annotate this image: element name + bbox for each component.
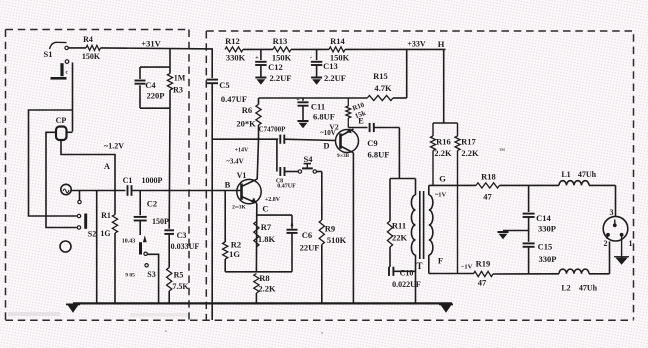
svg-text:V1: V1: [237, 171, 247, 180]
node H: [438, 39, 445, 49]
svg-text:150P: 150P: [152, 217, 169, 226]
V2 part number: [337, 154, 350, 159]
svg-text:G: G: [439, 174, 446, 184]
svg-text:C14: C14: [536, 213, 551, 223]
capacitor C2 150P: [134, 191, 169, 236]
svg-text:2.2K: 2.2K: [258, 284, 276, 294]
svg-text:·: ·: [310, 54, 312, 62]
svg-text:R19: R19: [476, 259, 491, 269]
wire C9 to transformer: [390, 128, 416, 179]
svg-text:C3: C3: [177, 231, 187, 240]
svg-text:10.43: 10.43: [122, 239, 136, 245]
wire C7 row: [212, 138, 278, 140]
svg-text:+33V: +33V: [407, 40, 426, 49]
svg-text:C15: C15: [538, 242, 553, 252]
svg-text:R13: R13: [273, 36, 288, 46]
svg-text:3: 3: [610, 208, 614, 217]
label ~3.4V: [226, 158, 243, 166]
svg-text:7.5K: 7.5K: [172, 282, 189, 291]
ground under C11: [298, 121, 309, 128]
wire C7row to C8: [276, 139, 278, 171]
resistor R3 1M: [167, 67, 185, 108]
connector pin 3: [610, 208, 617, 227]
wire mic to C1 row: [71, 190, 125, 192]
svg-text:S2: S2: [88, 230, 96, 239]
C6 top bar: [256, 214, 292, 216]
label +33V: [407, 40, 426, 49]
switch S4: [298, 154, 316, 173]
wire row y98: [259, 97, 368, 99]
svg-text:A: A: [104, 161, 111, 171]
svg-text:~3.4V: ~3.4V: [226, 158, 243, 166]
ground symbol right: [439, 304, 453, 312]
svg-text:C1: C1: [123, 176, 133, 185]
resistor R9 510K: [319, 220, 346, 303]
svg-text:~1V: ~1V: [435, 192, 447, 199]
node F: [438, 256, 443, 266]
ground under C13: [311, 78, 322, 85]
resistor R4 150K: [68, 35, 213, 61]
label -1V: [461, 264, 473, 271]
svg-text:R15: R15: [373, 71, 388, 81]
svg-text:T: T: [416, 261, 422, 271]
trademark mark: [499, 149, 505, 155]
svg-text:2∞3K: 2∞3K: [232, 205, 246, 211]
transistor V1: [237, 171, 262, 204]
svg-text:R8: R8: [259, 273, 269, 283]
wire ground branch x97: [96, 191, 98, 304]
label E node: [358, 116, 364, 126]
switch S1: [44, 42, 69, 59]
svg-text:C2: C2: [147, 199, 157, 209]
trimmer switch S3: [141, 235, 156, 279]
svg-text:22UF: 22UF: [300, 243, 320, 253]
svg-text:330P: 330P: [539, 254, 557, 264]
wire L1 to connector pin3: [615, 185, 617, 216]
wire F bar: [429, 273, 474, 275]
capacitor C5 0.47UF: [206, 49, 247, 320]
svg-text:+: +: [255, 56, 259, 62]
wire CP left lead to S2 contact 3: [46, 132, 77, 227]
svg-text:1G: 1G: [100, 229, 110, 238]
microphone M1: [61, 184, 71, 194]
svg-text:+: +: [296, 97, 300, 103]
wire H down: [443, 49, 445, 123]
circle symbol (battery holder): [60, 241, 71, 252]
capacitor C6 22UF: [287, 215, 320, 272]
svg-text:1M: 1M: [174, 74, 186, 83]
label B node: [225, 180, 231, 190]
svg-text:S3: S3: [147, 270, 155, 279]
svg-text:1000P: 1000P: [142, 176, 163, 185]
svg-text:0.47UF: 0.47UF: [277, 184, 296, 190]
svg-text:2.2K: 2.2K: [461, 148, 479, 158]
svg-text:R14: R14: [330, 36, 345, 46]
svg-text:S1: S1: [44, 49, 53, 59]
resistor R18 47: [476, 172, 559, 202]
wire R3 down to C3: [168, 108, 171, 229]
svg-text:9∞3B: 9∞3B: [337, 154, 350, 159]
svg-text:R7: R7: [261, 222, 272, 232]
svg-text:R5: R5: [174, 271, 184, 280]
capacitor C15 330P: [523, 242, 557, 274]
svg-text:4.7K: 4.7K: [374, 83, 392, 93]
node A label: [104, 161, 111, 171]
svg-text:330K: 330K: [226, 53, 246, 63]
svg-text:R18: R18: [481, 172, 496, 182]
ground under connector: [614, 257, 629, 265]
inductor L2 47Uh: [559, 269, 610, 292]
resistor R8 2.2K: [254, 273, 276, 303]
svg-text:C13: C13: [323, 61, 338, 71]
R16/R17 top bar: [433, 122, 458, 124]
node G: [435, 174, 447, 199]
wire branch to S2 contact 2: [29, 110, 77, 216]
wire B row to V1 base: [212, 190, 241, 192]
wire S3 wiper to ground bus: [147, 254, 158, 303]
transformer T primary: [411, 179, 415, 304]
label ~1.2V: [104, 142, 124, 151]
transformer core: [420, 191, 424, 259]
svg-text:1G: 1G: [229, 249, 240, 259]
wire S4 to R9: [316, 172, 321, 221]
resistor R6 20*K: [236, 98, 261, 139]
capacitor C8 0.47UF: [276, 167, 298, 190]
wire +31V drop to R3: [169, 49, 171, 68]
wire CP right lead: [67, 131, 73, 133]
capacitor C13 2.2UF: [310, 49, 346, 83]
wire pin1 to ground: [621, 236, 623, 258]
capacitor C7 4700P: [259, 126, 336, 144]
capacitor C4 220P: [135, 67, 165, 108]
resistor R10 15k: [346, 98, 367, 122]
resistor R13 150K: [272, 36, 329, 63]
svg-text:47: 47: [478, 278, 487, 288]
V1 part number: [232, 205, 246, 211]
inductor L1 47Uh: [559, 170, 616, 185]
wire CP bottom to node A line: [61, 140, 115, 191]
capacitor C9 6.8UF: [367, 123, 399, 160]
svg-text:L1: L1: [561, 170, 570, 179]
switch S2: [77, 214, 96, 239]
svg-text:R4: R4: [83, 35, 93, 44]
C4/R3 top bar: [140, 66, 170, 68]
svg-text:C9: C9: [367, 138, 377, 148]
ground stub between C14 C15: [498, 231, 529, 240]
svg-text:47: 47: [483, 192, 492, 202]
faint scan smear near bottom-left: [8, 312, 60, 316]
ground symbol left: [66, 304, 80, 312]
svg-text:9 05: 9 05: [125, 273, 135, 279]
svg-text:2.2UF: 2.2UF: [270, 73, 292, 83]
connector pin 2: [604, 233, 610, 248]
svg-text:™: ™: [499, 149, 505, 155]
label T: [416, 261, 422, 271]
svg-text:~10V: ~10V: [320, 129, 336, 137]
svg-text:330P: 330P: [538, 224, 556, 234]
svg-text:150K: 150K: [82, 52, 101, 61]
svg-text:C5: C5: [219, 80, 229, 90]
svg-text:D: D: [323, 141, 329, 151]
wire +33V corner down to R15: [406, 49, 408, 98]
svg-text:R9: R9: [325, 224, 335, 234]
label D node: [323, 141, 329, 151]
svg-text:+2.8V: +2.8V: [265, 197, 281, 203]
svg-text:1.8K: 1.8K: [258, 234, 276, 244]
wire G bar: [429, 184, 476, 186]
resistor R1 1G: [100, 191, 117, 304]
svg-text:150K: 150K: [272, 53, 292, 63]
svg-text:L2: L2: [561, 284, 570, 293]
electret mic CP: [56, 116, 67, 140]
label +14V: [235, 148, 249, 154]
svg-text:−1V: −1V: [461, 264, 473, 271]
wire emitter to C9: [348, 122, 367, 127]
wire R6 to V1 collector: [257, 139, 258, 179]
svg-text:2.2UF: 2.2UF: [324, 73, 346, 83]
svg-text:S4: S4: [304, 154, 314, 164]
svg-text:220P: 220P: [147, 91, 165, 101]
svg-text:6.8UF: 6.8UF: [368, 150, 390, 160]
wire S1 to CP: [72, 63, 74, 132]
svg-text:47Uh: 47Uh: [578, 170, 597, 179]
resistor R7 1.8K: [254, 222, 276, 248]
resistor R17 2.2K: [455, 123, 479, 274]
shared bottom dashed border: [6, 319, 634, 321]
svg-text:0.022UF: 0.022UF: [392, 280, 421, 289]
svg-text:1: 1: [629, 239, 633, 248]
capacitor C12 2.2UF: [255, 49, 291, 83]
box 2 dashed border (amplifier section): [206, 31, 633, 320]
capacitor C10 0.022UF: [389, 267, 421, 289]
capacitor C3 0.033UF: [164, 230, 199, 267]
svg-text:C11: C11: [311, 102, 325, 112]
svg-text:B: B: [225, 180, 231, 190]
svg-text:510K: 510K: [327, 235, 347, 245]
label C node: [262, 204, 268, 214]
capacitor C11 6.8UF: [296, 97, 335, 122]
svg-text:F: F: [438, 256, 443, 266]
capacitor C14 330P: [523, 185, 556, 241]
resistor R15 4.7K: [367, 71, 406, 101]
resistor R19 47: [473, 259, 559, 288]
resistor R16 2.2K: [431, 123, 453, 185]
connector socket: [603, 216, 628, 241]
label +31V: [141, 39, 161, 49]
ground under C12: [255, 78, 266, 85]
svg-text:R11: R11: [392, 221, 406, 231]
transformer T secondary: [429, 185, 433, 273]
svg-text:~1.2V: ~1.2V: [104, 142, 124, 151]
svg-text:C12: C12: [268, 62, 283, 72]
svg-text:R12: R12: [225, 36, 240, 46]
connector pin 1: [620, 233, 633, 248]
R2/R7/C6 bottom bar: [225, 271, 292, 273]
svg-text:H: H: [438, 39, 445, 49]
svg-text:20*K: 20*K: [236, 119, 256, 129]
svg-text:R16: R16: [436, 137, 451, 147]
svg-text:0.033UF: 0.033UF: [171, 242, 200, 251]
S3 annotation 10.43: [122, 239, 136, 245]
ground bus: [73, 302, 452, 304]
svg-text:0.47UF: 0.47UF: [221, 94, 247, 104]
stub to S2 contact 1: [78, 191, 81, 204]
svg-text:C10: C10: [400, 269, 414, 278]
resistor R12 330K: [225, 36, 273, 63]
wire F to connector pin 2: [609, 242, 611, 274]
S1 lower contact and plug symbol: [51, 60, 69, 79]
wire V2 collector down: [352, 153, 354, 304]
svg-text:C6: C6: [302, 230, 312, 240]
svg-text:R6: R6: [242, 105, 252, 115]
svg-text:47Uh: 47Uh: [579, 284, 598, 293]
label +2.8V: [265, 197, 281, 203]
resistor R11 22K: [387, 179, 407, 268]
svg-text:CP: CP: [56, 116, 67, 125]
svg-text:2.2K: 2.2K: [434, 148, 452, 158]
svg-text:+31V: +31V: [141, 39, 161, 49]
svg-text:C: C: [262, 204, 268, 214]
svg-text:6.8UF: 6.8UF: [313, 112, 335, 122]
resistor R5 7.5K: [167, 268, 190, 304]
svg-text:R1: R1: [101, 211, 111, 220]
svg-text:E: E: [358, 116, 364, 126]
resistor R14 150K: [329, 36, 446, 63]
svg-text:R17: R17: [461, 137, 476, 147]
svg-text:+14V: +14V: [235, 148, 249, 154]
C4/R3 bottom bar: [140, 107, 170, 109]
capacitor C1 1000P: [123, 176, 213, 196]
svg-text:C74700P: C74700P: [259, 126, 287, 134]
label ~10V: [320, 129, 336, 137]
svg-text:R3: R3: [173, 86, 183, 95]
resistor R2 1G: [223, 191, 242, 272]
wire V1 emitter down: [255, 203, 257, 272]
svg-text:2: 2: [604, 239, 608, 248]
box 1 dashed border (oscillator section): [6, 30, 190, 321]
svg-text:22K: 22K: [392, 233, 408, 243]
svg-text:C4: C4: [145, 80, 156, 90]
transistor V2: [329, 123, 358, 153]
S3 annotation 9 05: [125, 273, 135, 279]
